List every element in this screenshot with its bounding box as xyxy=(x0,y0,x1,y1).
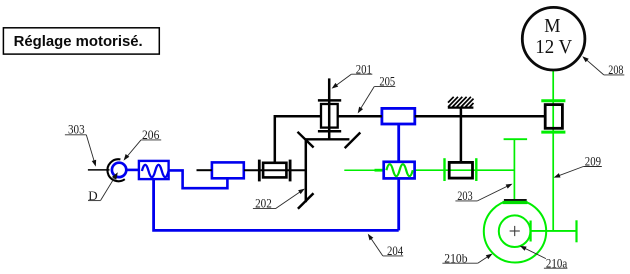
svg-text:12 V: 12 V xyxy=(535,36,572,58)
svg-text:303: 303 xyxy=(68,123,85,137)
svg-text:210b: 210b xyxy=(444,251,467,265)
svg-text:202: 202 xyxy=(255,197,272,211)
svg-text:208: 208 xyxy=(608,63,623,77)
svg-text:M: M xyxy=(544,15,560,37)
svg-text:206: 206 xyxy=(142,128,159,142)
svg-text:210a: 210a xyxy=(546,256,568,270)
svg-text:Réglage motorisé.: Réglage motorisé. xyxy=(14,34,143,50)
svg-text:203: 203 xyxy=(457,189,473,203)
svg-text:209: 209 xyxy=(585,155,601,169)
svg-text:D: D xyxy=(88,188,97,203)
svg-text:204: 204 xyxy=(387,244,404,258)
svg-text:201: 201 xyxy=(356,62,372,76)
svg-text:205: 205 xyxy=(379,75,395,89)
